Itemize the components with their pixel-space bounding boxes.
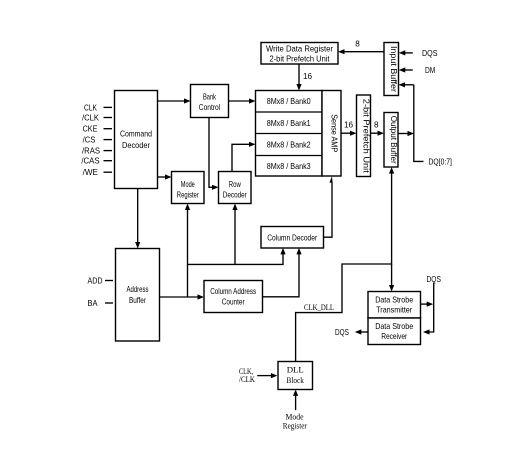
svg-text:/CLK: /CLK (239, 374, 256, 384)
block Sense AMP (322, 91, 341, 177)
signal label /CLK (82, 114, 112, 123)
svg-text:8: 8 (355, 40, 360, 49)
svg-text:DQ[0:7]: DQ[0:7] (429, 158, 452, 167)
wire Output Buffer to DQ line (398, 131, 414, 136)
block Row Decoder (219, 172, 252, 204)
wire CLK /CLK to DLL Block (239, 366, 277, 384)
svg-text:DQS: DQS (335, 328, 349, 337)
block Address Buffer (116, 249, 160, 342)
svg-text:8: 8 (374, 121, 379, 130)
svg-text:2-bit Prefetch Unit: 2-bit Prefetch Unit (270, 55, 331, 64)
svg-text:/CLK: /CLK (82, 114, 100, 123)
signal label CKE (83, 125, 112, 134)
svg-text:Data Strobe: Data Strobe (375, 296, 413, 305)
svg-text:8Mx8 / Bank1: 8Mx8 / Bank1 (267, 119, 311, 128)
block Column Decoder (261, 227, 324, 249)
block bank array 8Mx8 Bank0-3 (256, 91, 323, 177)
wire DQ vertical with DQ[0:7] label (399, 82, 452, 167)
svg-text:Register: Register (283, 421, 307, 431)
block Input Buffer (384, 43, 399, 96)
svg-text:Transmitter: Transmitter (376, 306, 412, 315)
svg-text:8Mx8 / Bank0: 8Mx8 / Bank0 (267, 97, 311, 106)
wire CLK_DLL from DLL Block to Output Buffer and Data Strobe Transmitter (296, 167, 395, 361)
svg-text:/CAS: /CAS (81, 157, 100, 166)
svg-text:ADD: ADD (88, 277, 103, 286)
svg-text:CKE: CKE (83, 125, 98, 134)
signal label ADD (88, 277, 114, 286)
block Write Data Register / 2-bit Prefetch Unit (261, 43, 338, 65)
signal label CLK (84, 103, 112, 112)
wire Data Strobe Receiver DQS out left (335, 328, 368, 337)
wire Write Data Register to Bank0 with label 16 (296, 64, 312, 91)
svg-text:Decoder: Decoder (122, 141, 150, 150)
wire address branch to Mode Register (185, 204, 190, 298)
block 2-bit Prefetch Unit (357, 95, 371, 177)
block Column Address Counter (204, 281, 263, 313)
svg-text:Column Address: Column Address (210, 287, 256, 296)
block DLL Block (278, 362, 313, 390)
signal label BA (88, 299, 114, 308)
svg-text:Output Buffer: Output Buffer (389, 116, 398, 164)
block Bank Control (191, 85, 229, 118)
svg-text:/CS: /CS (83, 136, 96, 145)
signal label /WE (83, 168, 112, 177)
svg-text:16: 16 (303, 72, 313, 81)
svg-text:CLK: CLK (84, 103, 97, 112)
svg-text:Sense AMP: Sense AMP (330, 114, 339, 152)
wire Column Address Counter to Column Decoder (263, 248, 302, 297)
wire 2-bit Prefetch Unit to Output Buffer with label 8 (371, 121, 385, 136)
svg-text:Receiver: Receiver (381, 332, 407, 341)
wire Address Buffer to Column Address Counter (160, 294, 205, 299)
wire Command Decoder to Address Buffer (135, 189, 140, 249)
svg-text:BA: BA (88, 299, 98, 308)
wire DQS right vertical into Data Strobe Receiver (423, 275, 441, 335)
svg-text:Input Buffer: Input Buffer (389, 46, 398, 92)
svg-text:/WE: /WE (83, 168, 99, 177)
svg-text:/RAS: /RAS (82, 147, 100, 156)
svg-text:Command: Command (120, 130, 152, 139)
block Mode Register (172, 172, 205, 204)
wire address branch to Column Decoder (188, 248, 286, 265)
svg-text:Bank: Bank (203, 93, 217, 102)
wire Data Strobe Transmitter to DQS out (421, 302, 434, 307)
block Command Decoder (115, 91, 158, 189)
svg-text:8Mx8 / Bank2: 8Mx8 / Bank2 (267, 141, 311, 150)
wire address branch to Row Decoder bottom (232, 204, 237, 265)
wire Row Decoder to Bank2 (232, 142, 256, 172)
svg-text:DQS: DQS (427, 275, 442, 284)
block Data Strobe Transmitter (368, 292, 421, 319)
wire Column Decoder to Sense AMP (324, 176, 333, 237)
svg-text:CLK_DLL: CLK_DLL (304, 302, 334, 312)
svg-text:2-bit Prefetch Unit: 2-bit Prefetch Unit (362, 99, 371, 174)
wire Input Buffer to Write Data Register with label 8 (338, 40, 384, 55)
wire Bank Control to Bank0 (229, 98, 256, 103)
wire Bank Control to Row Decoder (209, 118, 219, 190)
signal label /RAS (82, 147, 112, 156)
svg-text:DM: DM (425, 66, 435, 75)
signal label /CAS (81, 157, 112, 166)
wire Command Decoder to Mode Register (158, 174, 172, 179)
svg-text:16: 16 (344, 121, 354, 130)
svg-text:DQS: DQS (422, 49, 438, 58)
wire Command Decoder to Bank Control (158, 98, 191, 103)
svg-text:Buffer: Buffer (129, 296, 146, 305)
svg-text:Data Strobe: Data Strobe (375, 322, 413, 331)
svg-text:Decoder: Decoder (223, 191, 247, 200)
svg-text:Control: Control (199, 103, 221, 112)
svg-text:8Mx8 / Bank3: 8Mx8 / Bank3 (267, 162, 311, 171)
svg-text:Column Decoder: Column Decoder (267, 233, 317, 242)
wire Mode Register to DLL Block bottom (283, 389, 307, 430)
svg-text:Write Data Register: Write Data Register (266, 45, 333, 54)
block Output Buffer (384, 113, 398, 168)
signal label /CS (83, 136, 112, 145)
svg-text:Counter: Counter (222, 298, 245, 307)
svg-text:Block: Block (286, 375, 304, 385)
svg-text:Register: Register (177, 191, 199, 200)
wire DM input to Input Buffer (399, 66, 436, 75)
svg-text:DLL: DLL (287, 365, 304, 375)
svg-text:Row: Row (229, 180, 241, 189)
svg-text:Address: Address (127, 285, 149, 294)
svg-text:Mode: Mode (181, 180, 195, 189)
wire DQS input to Input Buffer (399, 49, 438, 58)
wire Sense AMP to 2-bit Prefetch Unit with label 16 (341, 121, 357, 136)
block Data Strobe Receiver (368, 318, 421, 345)
